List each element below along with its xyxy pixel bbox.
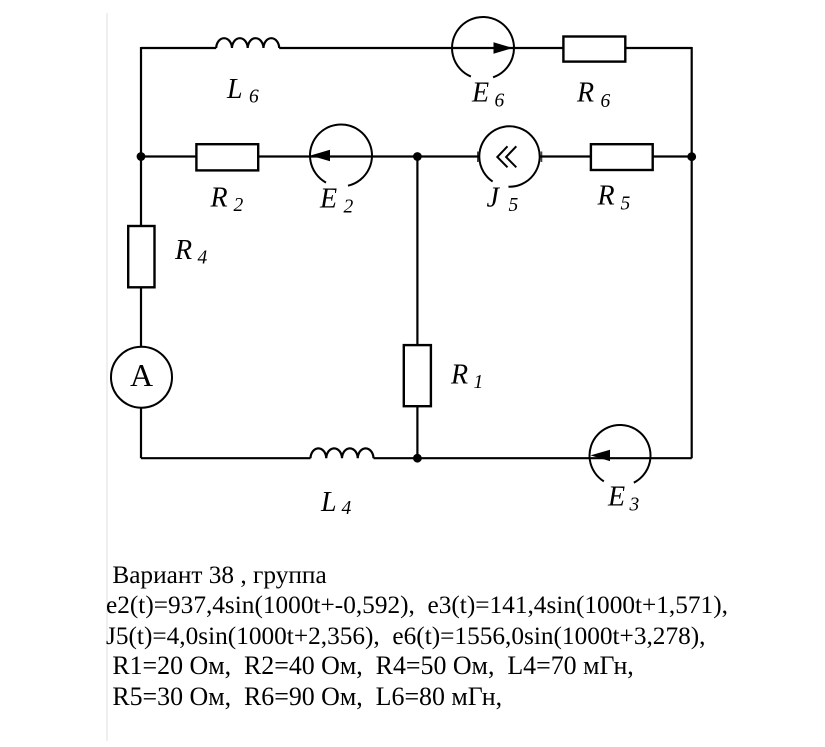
svg-text:2: 2 [344,197,354,218]
svg-text:5: 5 [621,194,631,215]
svg-text:L: L [320,487,337,518]
current source J5 [478,126,542,186]
svg-text:A: A [130,357,153,393]
node at right middle junction [687,152,696,161]
resistor R5 [591,144,653,170]
svg-text:R: R [576,78,594,109]
panel edge line [106,13,108,741]
wire left vertical lower [140,408,142,458]
inductor L4 [311,448,374,458]
svg-text:1: 1 [474,372,484,393]
svg-text:4: 4 [198,248,208,269]
source E2 [310,124,372,185]
svg-text:2: 2 [234,195,244,216]
svg-text:4: 4 [342,498,352,519]
svg-text:L: L [226,74,243,105]
svg-text:3: 3 [629,495,640,516]
svg-text:6: 6 [495,91,505,112]
parameters text block [106,560,728,713]
svg-text:E: E [607,481,625,512]
wire left vertical upper [140,47,142,226]
svg-text:E: E [471,77,489,108]
ammeter A [111,347,172,408]
wire bottom left [141,457,311,459]
node at center middle junction [413,152,422,161]
svg-text:R: R [597,181,615,212]
inductor L6 [216,38,279,48]
wire center vertical lower [416,406,418,458]
node at left middle junction [137,152,146,161]
wire middle horizontal left [141,155,479,157]
svg-text:6: 6 [249,87,259,108]
source E6 [452,17,514,77]
wire top right [279,47,692,49]
wire top left [141,47,216,49]
source E3 [590,425,651,483]
svg-text:J: J [487,182,501,213]
svg-text:R: R [450,359,468,390]
svg-text:E: E [319,184,337,215]
resistor R1 [404,345,431,406]
svg-text:R: R [174,235,192,266]
wire right vertical [691,47,693,458]
svg-text:5: 5 [509,195,519,216]
resistor R2 [196,144,258,170]
wire left vertical middle [140,287,142,347]
wire center vertical upper [416,157,418,346]
svg-text:6: 6 [601,91,611,112]
resistor R4 [128,226,154,287]
wire middle horizontal right [540,155,692,157]
node at center bottom junction [413,454,422,463]
wire bottom right [374,457,692,459]
resistor R6 [563,37,625,62]
svg-text:R: R [210,183,228,214]
